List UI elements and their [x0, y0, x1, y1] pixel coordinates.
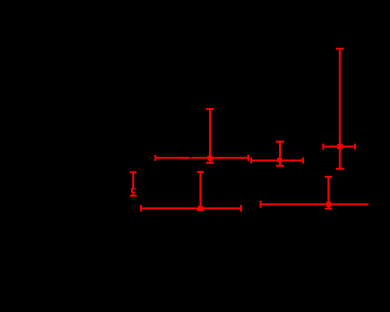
hidden black marker over P1 square — [133, 189, 136, 192]
errorbar point P4 right cap — [354, 144, 356, 150]
marker P3 square — [277, 158, 282, 163]
errorbar point P2 right cap — [247, 155, 249, 161]
errorbar point P4 top cap — [336, 48, 344, 50]
hidden black marker over P2 x-error line — [189, 155, 192, 158]
errorbar point P4 left cap — [322, 144, 324, 150]
errorbar point P5 right cap — [240, 205, 242, 212]
errorbar point P2 bottom cap — [206, 162, 214, 164]
errorbar point P2 horizontal line — [155, 157, 248, 159]
errorbar point P4 vertical line — [339, 49, 341, 169]
errorbar point P5 bottom cap — [197, 209, 204, 211]
errorbar point P3 vertical line — [279, 142, 281, 166]
errorbar point P6 vertical line — [327, 177, 329, 209]
errorbar point P6 left cap — [260, 201, 262, 208]
errorbar point P3 left cap — [250, 157, 252, 163]
errorbar point P5 horizontal line — [141, 207, 241, 209]
marker P4 square — [337, 144, 342, 149]
errorbar point P1 top cap — [130, 171, 137, 173]
errorbar point P6 horizontal line — [261, 203, 369, 205]
errorbar point P5 top cap — [197, 171, 204, 173]
errorbar point P6 bottom cap — [325, 208, 332, 210]
errorbar point P5 vertical line — [199, 172, 201, 210]
errorbar point P1 vertical line — [132, 172, 134, 195]
errorbar point P2 top cap — [206, 108, 214, 110]
errorbar point P2 vertical line — [209, 109, 211, 163]
errorbar point P6 top cap — [325, 176, 332, 178]
errorbar point P3 top cap — [276, 141, 284, 143]
errorbar point P2 left cap — [154, 155, 156, 161]
errorbar point P3 right cap — [302, 157, 304, 163]
marker P5 square — [198, 206, 203, 211]
errorbar point P3 horizontal line — [251, 159, 303, 161]
marker P2 square — [207, 156, 212, 161]
errorbar point P5 left cap — [140, 205, 142, 212]
errorbar point P1 bottom cap — [130, 195, 137, 197]
errorbar point P3 bottom cap — [276, 165, 284, 167]
marker P6 square — [326, 202, 331, 207]
errorbar point P4 bottom cap — [336, 168, 344, 170]
errorbar point P4 horizontal line — [323, 146, 355, 148]
marker P1 square — [131, 188, 136, 193]
